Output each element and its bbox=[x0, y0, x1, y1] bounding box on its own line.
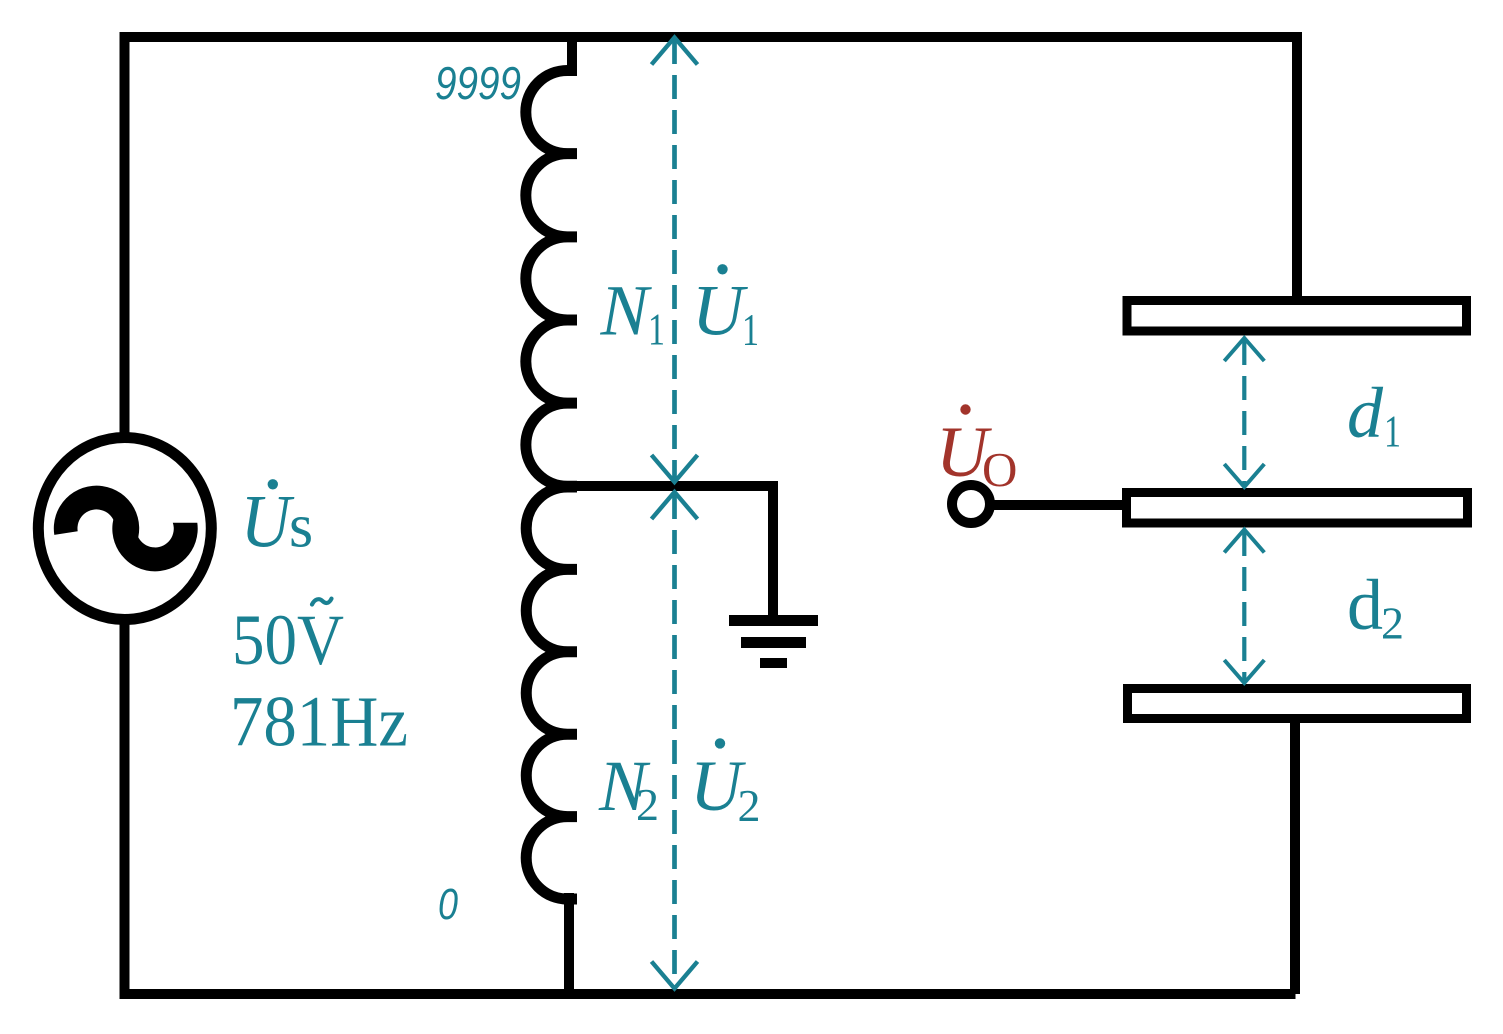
svg-text:1: 1 bbox=[742, 304, 759, 355]
wire: left vertical upper (source top lead) bbox=[120, 32, 130, 436]
svg-text:U: U bbox=[241, 481, 295, 564]
label N1 bbox=[600, 271, 666, 355]
svg-text:2: 2 bbox=[738, 780, 761, 831]
label d2 bbox=[1347, 565, 1404, 649]
svg-text:N: N bbox=[600, 271, 653, 351]
wire: top horizontal bbox=[120, 32, 1303, 42]
wire: left vertical lower (source bottom lead) bbox=[120, 622, 130, 999]
wire: center tap horizontal bbox=[563, 481, 773, 491]
svg-text:d: d bbox=[1347, 565, 1383, 645]
capacitor bottom plate bbox=[1128, 689, 1467, 719]
svg-text:2: 2 bbox=[1381, 598, 1404, 649]
AC source U_S circle bbox=[38, 438, 211, 620]
wire: right vertical to top plate bbox=[1292, 32, 1302, 300]
svg-text:0: 0 bbox=[438, 880, 458, 929]
winding lead bottom bbox=[564, 893, 574, 999]
svg-text:781Hz: 781Hz bbox=[230, 682, 408, 762]
capacitor top plate bbox=[1127, 301, 1467, 332]
svg-text:2: 2 bbox=[636, 779, 659, 830]
svg-text:1: 1 bbox=[1384, 406, 1401, 457]
label d1 bbox=[1347, 373, 1401, 457]
label N2 bbox=[598, 746, 659, 830]
dashed arrow U1 (N1 span) bbox=[652, 38, 698, 483]
dashed arrow U2 (N2 span) bbox=[652, 492, 698, 989]
svg-text:U: U bbox=[692, 271, 748, 351]
sine symbol: trough ring sector bbox=[112, 514, 197, 571]
winding N1 (upper 5 turns) bbox=[526, 71, 577, 487]
tilde over V bbox=[312, 599, 332, 605]
winding N2 (lower 5 turns) bbox=[526, 487, 577, 899]
transformer winding lead top bbox=[567, 32, 577, 76]
dashed arrow d2 bbox=[1224, 530, 1264, 684]
dashed arrow d1 bbox=[1224, 338, 1264, 487]
label Uo (output, dark red) bbox=[936, 404, 1017, 497]
wire: right vertical from bottom plate bbox=[1290, 716, 1300, 994]
sine symbol: crest ring sector bbox=[54, 486, 139, 547]
svg-text:50V: 50V bbox=[232, 600, 344, 680]
wire: output from terminal to middle plate bbox=[990, 500, 1131, 510]
ground symbol bbox=[729, 615, 818, 668]
wire: tap down to ground bbox=[768, 481, 778, 618]
output terminal circle bbox=[952, 485, 990, 523]
label U1 bbox=[692, 264, 759, 355]
label U2 bbox=[690, 738, 761, 831]
svg-text:s: s bbox=[289, 493, 313, 561]
svg-text:O: O bbox=[982, 442, 1017, 497]
svg-text:1: 1 bbox=[648, 304, 665, 355]
label Us (source) bbox=[241, 479, 314, 563]
svg-text:9999: 9999 bbox=[435, 57, 521, 109]
svg-text:d: d bbox=[1347, 373, 1384, 453]
capacitor middle plate bbox=[1127, 493, 1468, 524]
wire: bottom horizontal bbox=[120, 989, 1296, 999]
